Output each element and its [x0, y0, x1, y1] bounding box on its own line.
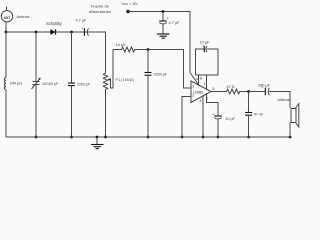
- svg-text:3: 3: [192, 85, 194, 89]
- wire varcap branch upper: [35, 32, 37, 82]
- node Vcc bypass junction: [162, 10, 165, 13]
- junction C7 bottom: [217, 136, 220, 139]
- pin 1 stub: [206, 75, 208, 90]
- potentiometer wiper arrow: [108, 50, 113, 89]
- svg-text:4.7 μF: 4.7 μF: [169, 21, 181, 25]
- svg-text:Fuente de: Fuente de: [91, 4, 110, 9]
- wire filter cap branch upper: [71, 32, 73, 83]
- junction C4 bottom: [147, 136, 150, 139]
- wire rail to speaker: [289, 123, 291, 138]
- svg-text:2: 2: [192, 93, 194, 97]
- svg-text:ANT: ANT: [4, 16, 11, 20]
- ground (supply bypass): [157, 24, 170, 38]
- variable capacitor C1 10/100 pF: [32, 77, 41, 89]
- wire R1 to opamp input corner: [148, 50, 191, 89]
- wire C7 to rail: [217, 119, 219, 137]
- svg-text:1: 1: [204, 82, 206, 86]
- svg-text:2200 pF: 2200 pF: [77, 82, 91, 86]
- resistor R1 14 kOhm: [113, 47, 148, 52]
- wire inductor to bottom rail: [5, 90, 7, 138]
- wire pot bottom to rail: [105, 90, 107, 137]
- capacitor C2 2200 pF: [68, 83, 75, 86]
- svg-text:LM386: LM386: [193, 91, 203, 95]
- pin 8 stub: [198, 75, 200, 86]
- wire bottom ground rail: [6, 136, 290, 138]
- diode D1 Schottky: [50, 29, 55, 35]
- svg-text:8: 8: [200, 77, 202, 81]
- wire zobel branch: [248, 92, 250, 113]
- wire left vertical (tank to ground rail): [5, 32, 7, 78]
- junction speaker return: [289, 136, 292, 139]
- svg-text:240 μH: 240 μH: [10, 82, 23, 86]
- wire varcap branch lower: [35, 84, 37, 137]
- capacitor C3 4.7 uF coupling (polarized): [82, 25, 89, 35]
- wire Vcc rail: [128, 12, 190, 73]
- wire cap C3 to corner: [88, 32, 106, 73]
- wire cap to speaker: [269, 92, 290, 109]
- inductor L1 240 uH: [4, 78, 6, 90]
- wire pin 7 bypass: [207, 94, 219, 116]
- svg-text:47 Ω: 47 Ω: [227, 85, 235, 89]
- node A (antenna/tank junction): [5, 31, 8, 34]
- svg-text:280 μF: 280 μF: [258, 84, 271, 88]
- junction pin 4 ground: [202, 136, 205, 139]
- op-amp U1 LM386: [191, 81, 211, 103]
- svg-text:5: 5: [213, 87, 215, 91]
- junction pin 2 ground: [181, 136, 184, 139]
- terminal Vcc: [126, 10, 129, 13]
- junction varcap bottom: [35, 136, 38, 139]
- potentiometer P1 zigzag: [103, 73, 107, 90]
- wire pin 4 to ground rail: [202, 96, 204, 137]
- node output junction: [247, 90, 250, 93]
- wire filter cap branch lower: [71, 86, 73, 137]
- svg-text:4: 4: [200, 99, 202, 103]
- svg-text:alimentación: alimentación: [89, 9, 111, 14]
- svg-text:2200 pF: 2200 pF: [154, 73, 168, 77]
- svg-text:Antena: Antena: [17, 14, 30, 19]
- junction filter cap bottom: [70, 136, 73, 139]
- speaker LS1: [291, 104, 299, 127]
- svg-text:4.7 μF: 4.7 μF: [76, 19, 88, 23]
- node R1 output: [147, 48, 150, 51]
- ground (main): [91, 137, 104, 149]
- svg-text:Altavoz: Altavoz: [278, 98, 290, 102]
- svg-text:P1(10kΩ): P1(10kΩ): [116, 78, 135, 82]
- wire top signal rail: [6, 31, 106, 33]
- svg-text:Schottky: Schottky: [46, 21, 63, 26]
- junction main ground: [96, 136, 99, 139]
- svg-text:10/100 pF: 10/100 pF: [42, 82, 59, 86]
- wire C8 to rail: [248, 115, 250, 137]
- capacitor C4 2200 pF (second filter): [147, 50, 149, 73]
- svg-text:14 kΩ: 14 kΩ: [116, 43, 126, 47]
- antenna symbol: [1, 7, 12, 22]
- wire pin 2 to ground rail: [182, 97, 191, 138]
- svg-text:10 μF: 10 μF: [200, 40, 210, 44]
- svg-text:Vcc = 6V: Vcc = 6V: [122, 1, 138, 6]
- svg-text:47 nF: 47 nF: [254, 113, 264, 117]
- wire antenna to top node: [5, 22, 7, 32]
- capacitor C5 4.7 uF (supply bypass, polarized): [159, 12, 169, 25]
- capacitor C7 10 uF bypass (polarized): [212, 111, 222, 119]
- junction C8 bottom: [247, 136, 250, 139]
- junction pot bottom: [104, 136, 107, 139]
- pin 6 wire (Vcc into top edge): [190, 73, 199, 86]
- resistor R2 47 Ohm: [211, 89, 249, 94]
- node varcap top: [35, 31, 38, 34]
- capacitor C6 10 uF gain (pins 1-8, polarized): [196, 43, 219, 75]
- svg-text:10 μF: 10 μF: [226, 117, 236, 121]
- capacitor C9 280 uF output (polarized): [249, 85, 270, 95]
- wire C4 to rail: [147, 75, 149, 137]
- capacitor C8 47 nF: [245, 113, 252, 116]
- svg-text:6: 6: [196, 77, 198, 81]
- node diode output / filter junction: [70, 31, 73, 34]
